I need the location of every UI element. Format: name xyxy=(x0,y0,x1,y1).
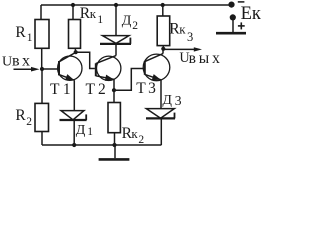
svg-text:Д: Д xyxy=(162,93,172,108)
label Rк3 xyxy=(169,20,193,44)
junction dot Д1-rail xyxy=(72,143,76,147)
svg-text:R: R xyxy=(15,24,26,41)
junction dot Д2-rail xyxy=(114,3,118,7)
svg-text:вх: вх xyxy=(12,53,32,70)
svg-text:1: 1 xyxy=(97,14,103,26)
wire bottom rail xyxy=(42,144,161,146)
node input (T1 base) xyxy=(40,67,44,71)
diode Д1 (zener) xyxy=(60,111,87,145)
transistor T3 xyxy=(143,49,170,109)
svg-text:1: 1 xyxy=(87,126,93,138)
wire node to R2 xyxy=(41,69,43,103)
svg-text:Ек: Ек xyxy=(241,4,261,24)
junction dot output xyxy=(161,47,165,51)
label Д1 xyxy=(76,123,93,138)
output arrow Uвых xyxy=(163,47,202,51)
battery Ек terminal minus xyxy=(228,2,234,8)
transistor T1 xyxy=(58,52,82,110)
svg-text:Т1: Т1 xyxy=(50,81,74,98)
junction dot Rк1-rail xyxy=(71,3,75,7)
battery Ек terminal plus xyxy=(230,14,236,20)
svg-text:R: R xyxy=(15,107,26,124)
svg-text:Т2: Т2 xyxy=(86,81,109,98)
svg-text:3: 3 xyxy=(187,30,193,44)
wire T1 collector to T2 base xyxy=(76,52,95,68)
label Uвых xyxy=(179,50,222,67)
diode Д3 (zener) xyxy=(146,109,175,145)
resistor Rк2 xyxy=(108,90,120,145)
svg-text:к: к xyxy=(131,126,138,141)
svg-text:U: U xyxy=(2,55,12,70)
wire Д2 anode xyxy=(115,5,117,35)
label Rк1 xyxy=(80,5,104,26)
svg-text:Д: Д xyxy=(76,123,86,138)
ground (middle) xyxy=(99,145,130,159)
svg-text:2: 2 xyxy=(138,134,144,146)
junction dot T2 emitter xyxy=(112,88,116,92)
svg-text:2: 2 xyxy=(132,20,138,32)
transistor T2 xyxy=(96,56,121,91)
label Д2 xyxy=(122,13,138,32)
label minus sign xyxy=(238,1,245,3)
wire battery to ground xyxy=(232,20,234,32)
svg-text:вых: вых xyxy=(189,50,223,67)
svg-text:1: 1 xyxy=(27,32,33,44)
svg-text:к: к xyxy=(179,21,186,36)
label R2 xyxy=(15,107,32,128)
resistor R1 xyxy=(35,5,49,69)
input arrow Uвх xyxy=(14,67,40,72)
svg-text:3: 3 xyxy=(175,93,182,108)
junction dot Rк2-rail xyxy=(112,143,116,147)
svg-text:2: 2 xyxy=(26,116,32,128)
resistor Rк1 xyxy=(69,5,81,52)
ground (battery) xyxy=(216,32,246,35)
junction dot T1 collector xyxy=(74,50,78,54)
wire T2 emitter to T3 base xyxy=(114,69,144,91)
junction dot Rк3-rail xyxy=(161,3,165,7)
svg-text:Т3: Т3 xyxy=(136,80,158,97)
label Uвх xyxy=(2,53,32,70)
label Rк2 xyxy=(122,125,145,146)
diode Д2 (zener) xyxy=(100,36,131,56)
resistor R2 xyxy=(35,103,49,145)
wire T1 base xyxy=(42,68,59,70)
resistor Rк3 xyxy=(157,5,170,49)
label R1 xyxy=(15,24,32,44)
svg-text:к: к xyxy=(90,6,97,21)
label Д3 xyxy=(162,93,181,108)
wire top supply rail xyxy=(41,4,232,6)
label plus sign xyxy=(238,22,245,29)
svg-text:Д: Д xyxy=(122,13,132,28)
